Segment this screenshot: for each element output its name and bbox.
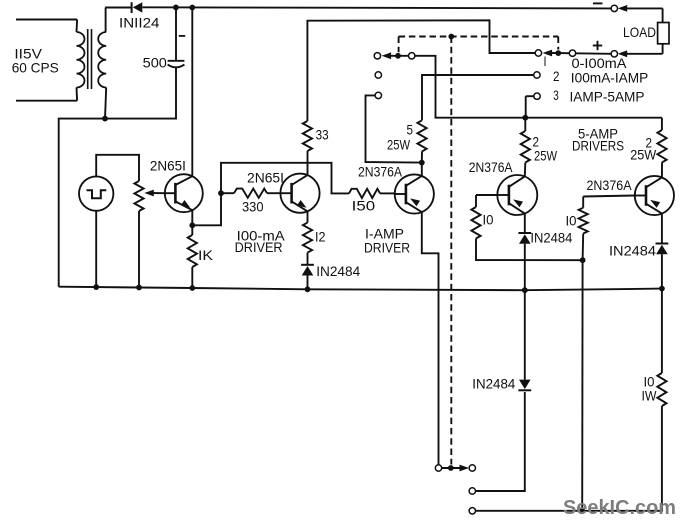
svg-text:IN2484: IN2484 [316,263,360,279]
svg-text:IAMP-5AMP: IAMP-5AMP [570,89,645,105]
svg-text:5: 5 [407,122,414,138]
svg-text:2N65I: 2N65I [247,170,284,186]
svg-text:3: 3 [553,87,559,103]
svg-text:I50: I50 [352,198,376,214]
svg-text:IK: IK [198,247,214,263]
svg-text:SeekIC.com: SeekIC.com [563,497,676,519]
svg-text:I00mA-IAMP: I00mA-IAMP [571,70,649,86]
svg-text:IN2484: IN2484 [472,376,515,392]
svg-text:DRIVERS: DRIVERS [572,138,624,154]
svg-text:330: 330 [242,199,264,215]
svg-text:2N376A: 2N376A [469,159,513,175]
svg-text:2N65I: 2N65I [150,158,186,174]
svg-text:60 CPS: 60 CPS [12,60,59,76]
svg-text:2N376A: 2N376A [587,177,633,193]
svg-text:33: 33 [316,127,329,143]
svg-text:IW: IW [642,388,658,404]
svg-text:DRIVER: DRIVER [364,240,410,256]
svg-text:I2: I2 [315,229,326,245]
svg-text:500: 500 [143,55,168,71]
svg-text:25W: 25W [630,147,657,163]
svg-text:IN2484: IN2484 [609,243,656,259]
svg-text:IN2484: IN2484 [530,230,572,246]
svg-text:2N376A: 2N376A [358,164,403,180]
svg-text:LOAD: LOAD [623,24,656,40]
svg-text:INII24: INII24 [119,15,160,31]
svg-text:2: 2 [553,68,560,84]
svg-text:I0: I0 [483,212,494,228]
svg-text:I: I [544,53,547,69]
svg-text:I0: I0 [566,213,577,229]
svg-text:25W: 25W [534,148,558,164]
svg-text:DRIVER: DRIVER [235,239,283,255]
svg-text:25W: 25W [387,137,411,153]
